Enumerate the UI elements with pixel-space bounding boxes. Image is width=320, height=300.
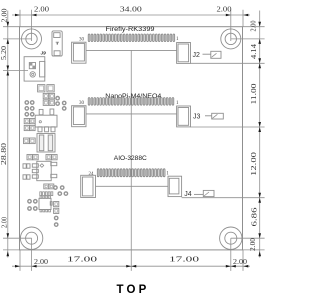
via V8: [58, 192, 61, 195]
svg-text:2.00: 2.00: [34, 6, 49, 14]
right extension at board bottom: [243, 249, 265, 251]
pad C2: [47, 85, 54, 92]
svg-text:34.00: 34.00: [120, 6, 143, 14]
mounting hole bottom-right: [220, 227, 242, 249]
op-amp U2 left pads: [32, 164, 38, 178]
top extension line at board right edge: [242, 10, 244, 27]
svg-text:2.00: 2.00: [1, 8, 9, 22]
header pin pads: [40, 192, 53, 196]
svg-text:17.00: 17.00: [67, 255, 98, 263]
svg-text:2.00: 2.00: [250, 20, 258, 31]
svg-text:AIO-3288C: AIO-3288C: [114, 155, 147, 162]
right extension through top-right hole: [231, 38, 265, 40]
capacitor C8 pads: [44, 184, 54, 189]
bottom dimension line: [12, 265, 250, 267]
connector J9 round pad: [30, 72, 35, 77]
board outline: [20, 27, 243, 250]
connector J5 pin row (30 pins): [88, 98, 174, 106]
via V10: [55, 216, 58, 219]
svg-text:11.00: 11.00: [250, 83, 258, 105]
connector J1 right end bracket: [177, 43, 191, 64]
top extension line at board left edge: [19, 10, 21, 27]
left dimension line: [7, 11, 9, 258]
left dim arrows: [7, 22, 10, 257]
svg-text:5.20: 5.20: [0, 46, 8, 60]
resistor R3 pads: [27, 155, 38, 160]
component D1 body: [52, 31, 62, 56]
connector J1 left end bracket: [72, 42, 86, 63]
left extension through bottom-left hole: [3, 237, 32, 239]
svg-text:30: 30: [79, 37, 85, 42]
capacitor C3 pads: [24, 119, 35, 124]
resistor R4 pads: [46, 155, 57, 160]
mounting hole top-left: [22, 29, 42, 49]
right extension through bottom-right hole: [231, 237, 265, 239]
svg-text:TOP: TOP: [116, 284, 149, 296]
via V4: [62, 107, 65, 110]
capacitor C7 pads: [23, 175, 30, 179]
connector J6 pin row (24 pins): [97, 169, 165, 177]
capacitor C6 pads: [23, 164, 30, 168]
pad O2: [54, 208, 59, 213]
top extension line through right hole center: [230, 10, 232, 41]
pad O1: [54, 202, 59, 207]
right extension at J2: [191, 62, 265, 64]
capacitor C5 pads: [24, 138, 36, 144]
connector J6 right end bracket: [168, 176, 182, 196]
via V1: [56, 97, 59, 100]
svg-text:28.80: 28.80: [0, 142, 8, 165]
right dimension line: [259, 11, 261, 258]
via V9: [64, 192, 67, 195]
crystal Y1 body: [37, 134, 55, 153]
connector J5 right end bracket: [177, 106, 191, 127]
via pair VP1: [25, 101, 34, 104]
connector J5 left end bracket: [72, 106, 86, 127]
svg-text:J9: J9: [41, 50, 47, 56]
via V3: [62, 101, 65, 104]
left extension at board bottom: [3, 249, 20, 251]
op-amp U3 bottom pins: [40, 210, 51, 212]
top dimension line: [12, 14, 250, 16]
connector J9 body: [24, 57, 45, 81]
connector J5 body line: [86, 113, 177, 115]
symbol J3: [205, 113, 223, 119]
via V11: [55, 223, 58, 226]
via pair VP2: [25, 107, 34, 110]
svg-text:J4: J4: [184, 191, 192, 198]
connector J1 pin row (30 pins): [88, 34, 174, 42]
via pair VP3: [25, 113, 34, 116]
left extension through top-left hole: [3, 38, 32, 40]
pad C1: [38, 85, 45, 92]
bottom extension through bottom-right hole: [230, 238, 232, 271]
left extension at board top: [3, 26, 20, 28]
svg-text:2.00: 2.00: [34, 258, 48, 266]
svg-text:2.00: 2.00: [249, 238, 257, 251]
resistor R1 pads: [43, 93, 54, 98]
right extension at board top: [243, 26, 265, 28]
right extension at J3: [191, 126, 265, 128]
bottom extension at board right edge: [242, 250, 244, 271]
op-amp U2 body: [37, 161, 51, 180]
op-amp U3 body: [39, 198, 52, 209]
component D1 pad bottom: [54, 51, 60, 56]
bottom extension at board left edge: [19, 250, 21, 271]
capacitor C4 pads: [24, 125, 35, 130]
svg-text:2.00: 2.00: [1, 217, 9, 228]
right dim arrows: [258, 22, 261, 257]
connector J9 latch: [40, 61, 45, 77]
left extension at J9 pin: [3, 70, 28, 72]
via group M: [28, 200, 37, 211]
svg-text:12.00: 12.00: [250, 151, 258, 176]
connector J6 left end bracket: [81, 175, 96, 197]
svg-text:4.14: 4.14: [250, 44, 258, 59]
via V5: [54, 186, 57, 189]
bottom extension board centerline: [130, 50, 132, 271]
transistor Q1 body: [35, 115, 57, 127]
connector J1 body line: [86, 49, 177, 51]
svg-text:J2: J2: [192, 52, 200, 59]
crystal Y1 electrodes: [39, 135, 52, 151]
mounting hole top-right: [221, 29, 241, 49]
connector J9 pin-1 square pad: [29, 63, 35, 69]
component D1 polarity mark: [56, 42, 59, 44]
top extension line through left hole center: [31, 10, 33, 41]
right extension at J4: [182, 197, 265, 199]
symbol J2: [203, 51, 222, 58]
bottom dim arrows: [15, 265, 248, 268]
via V2: [56, 102, 59, 105]
connector J6 body line: [96, 185, 169, 187]
resistor R2 pads: [43, 100, 54, 105]
mounting hole bottom-left: [20, 227, 42, 249]
svg-text:2.00: 2.00: [217, 6, 232, 14]
transistor Q1 pads: [39, 109, 54, 115]
svg-text:2.00: 2.00: [233, 258, 247, 266]
svg-text:17.00: 17.00: [169, 255, 200, 263]
top dim arrows: [15, 14, 248, 17]
transistor Q1 bottom pads: [38, 127, 55, 132]
svg-text:J3: J3: [193, 114, 201, 121]
op-amp U3 top pins: [40, 196, 51, 198]
component D1 pad top: [54, 33, 60, 38]
symbol J4: [194, 190, 214, 196]
via V6: [61, 186, 64, 189]
op-amp U2 right pads: [51, 162, 57, 177]
svg-text:6.86: 6.86: [251, 207, 259, 227]
svg-text:Firefly-RK3399: Firefly-RK3399: [106, 26, 155, 33]
bottom extension through bottom-left hole: [31, 238, 33, 271]
